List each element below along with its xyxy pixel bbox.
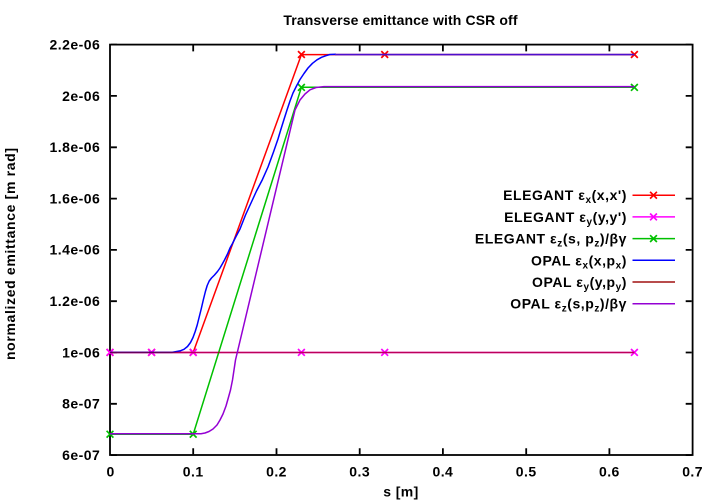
svg-text:Transverse emittance with CSR: Transverse emittance with CSR off (283, 12, 517, 28)
svg-text:2.2e-06: 2.2e-06 (50, 36, 101, 52)
svg-text:0.4: 0.4 (432, 464, 453, 480)
svg-text:0.5: 0.5 (516, 464, 537, 480)
svg-text:1.4e-06: 1.4e-06 (50, 242, 101, 258)
svg-text:0.1: 0.1 (183, 464, 204, 480)
svg-text:2e-06: 2e-06 (62, 88, 100, 104)
svg-text:0.2: 0.2 (266, 464, 287, 480)
svg-text:0.3: 0.3 (349, 464, 370, 480)
svg-text:0: 0 (106, 464, 114, 480)
svg-text:0.6: 0.6 (599, 464, 620, 480)
svg-text:1.6e-06: 1.6e-06 (50, 190, 101, 206)
svg-text:1.8e-06: 1.8e-06 (50, 139, 101, 155)
svg-text:normalized emittance [m rad]: normalized emittance [m rad] (2, 147, 18, 360)
svg-text:6e-07: 6e-07 (62, 447, 100, 463)
svg-text:1e-06: 1e-06 (62, 344, 100, 360)
svg-text:s [m]: s [m] (383, 484, 418, 500)
svg-text:1.2e-06: 1.2e-06 (50, 293, 101, 309)
svg-text:8e-07: 8e-07 (62, 396, 100, 412)
svg-text:0.7: 0.7 (682, 464, 703, 480)
